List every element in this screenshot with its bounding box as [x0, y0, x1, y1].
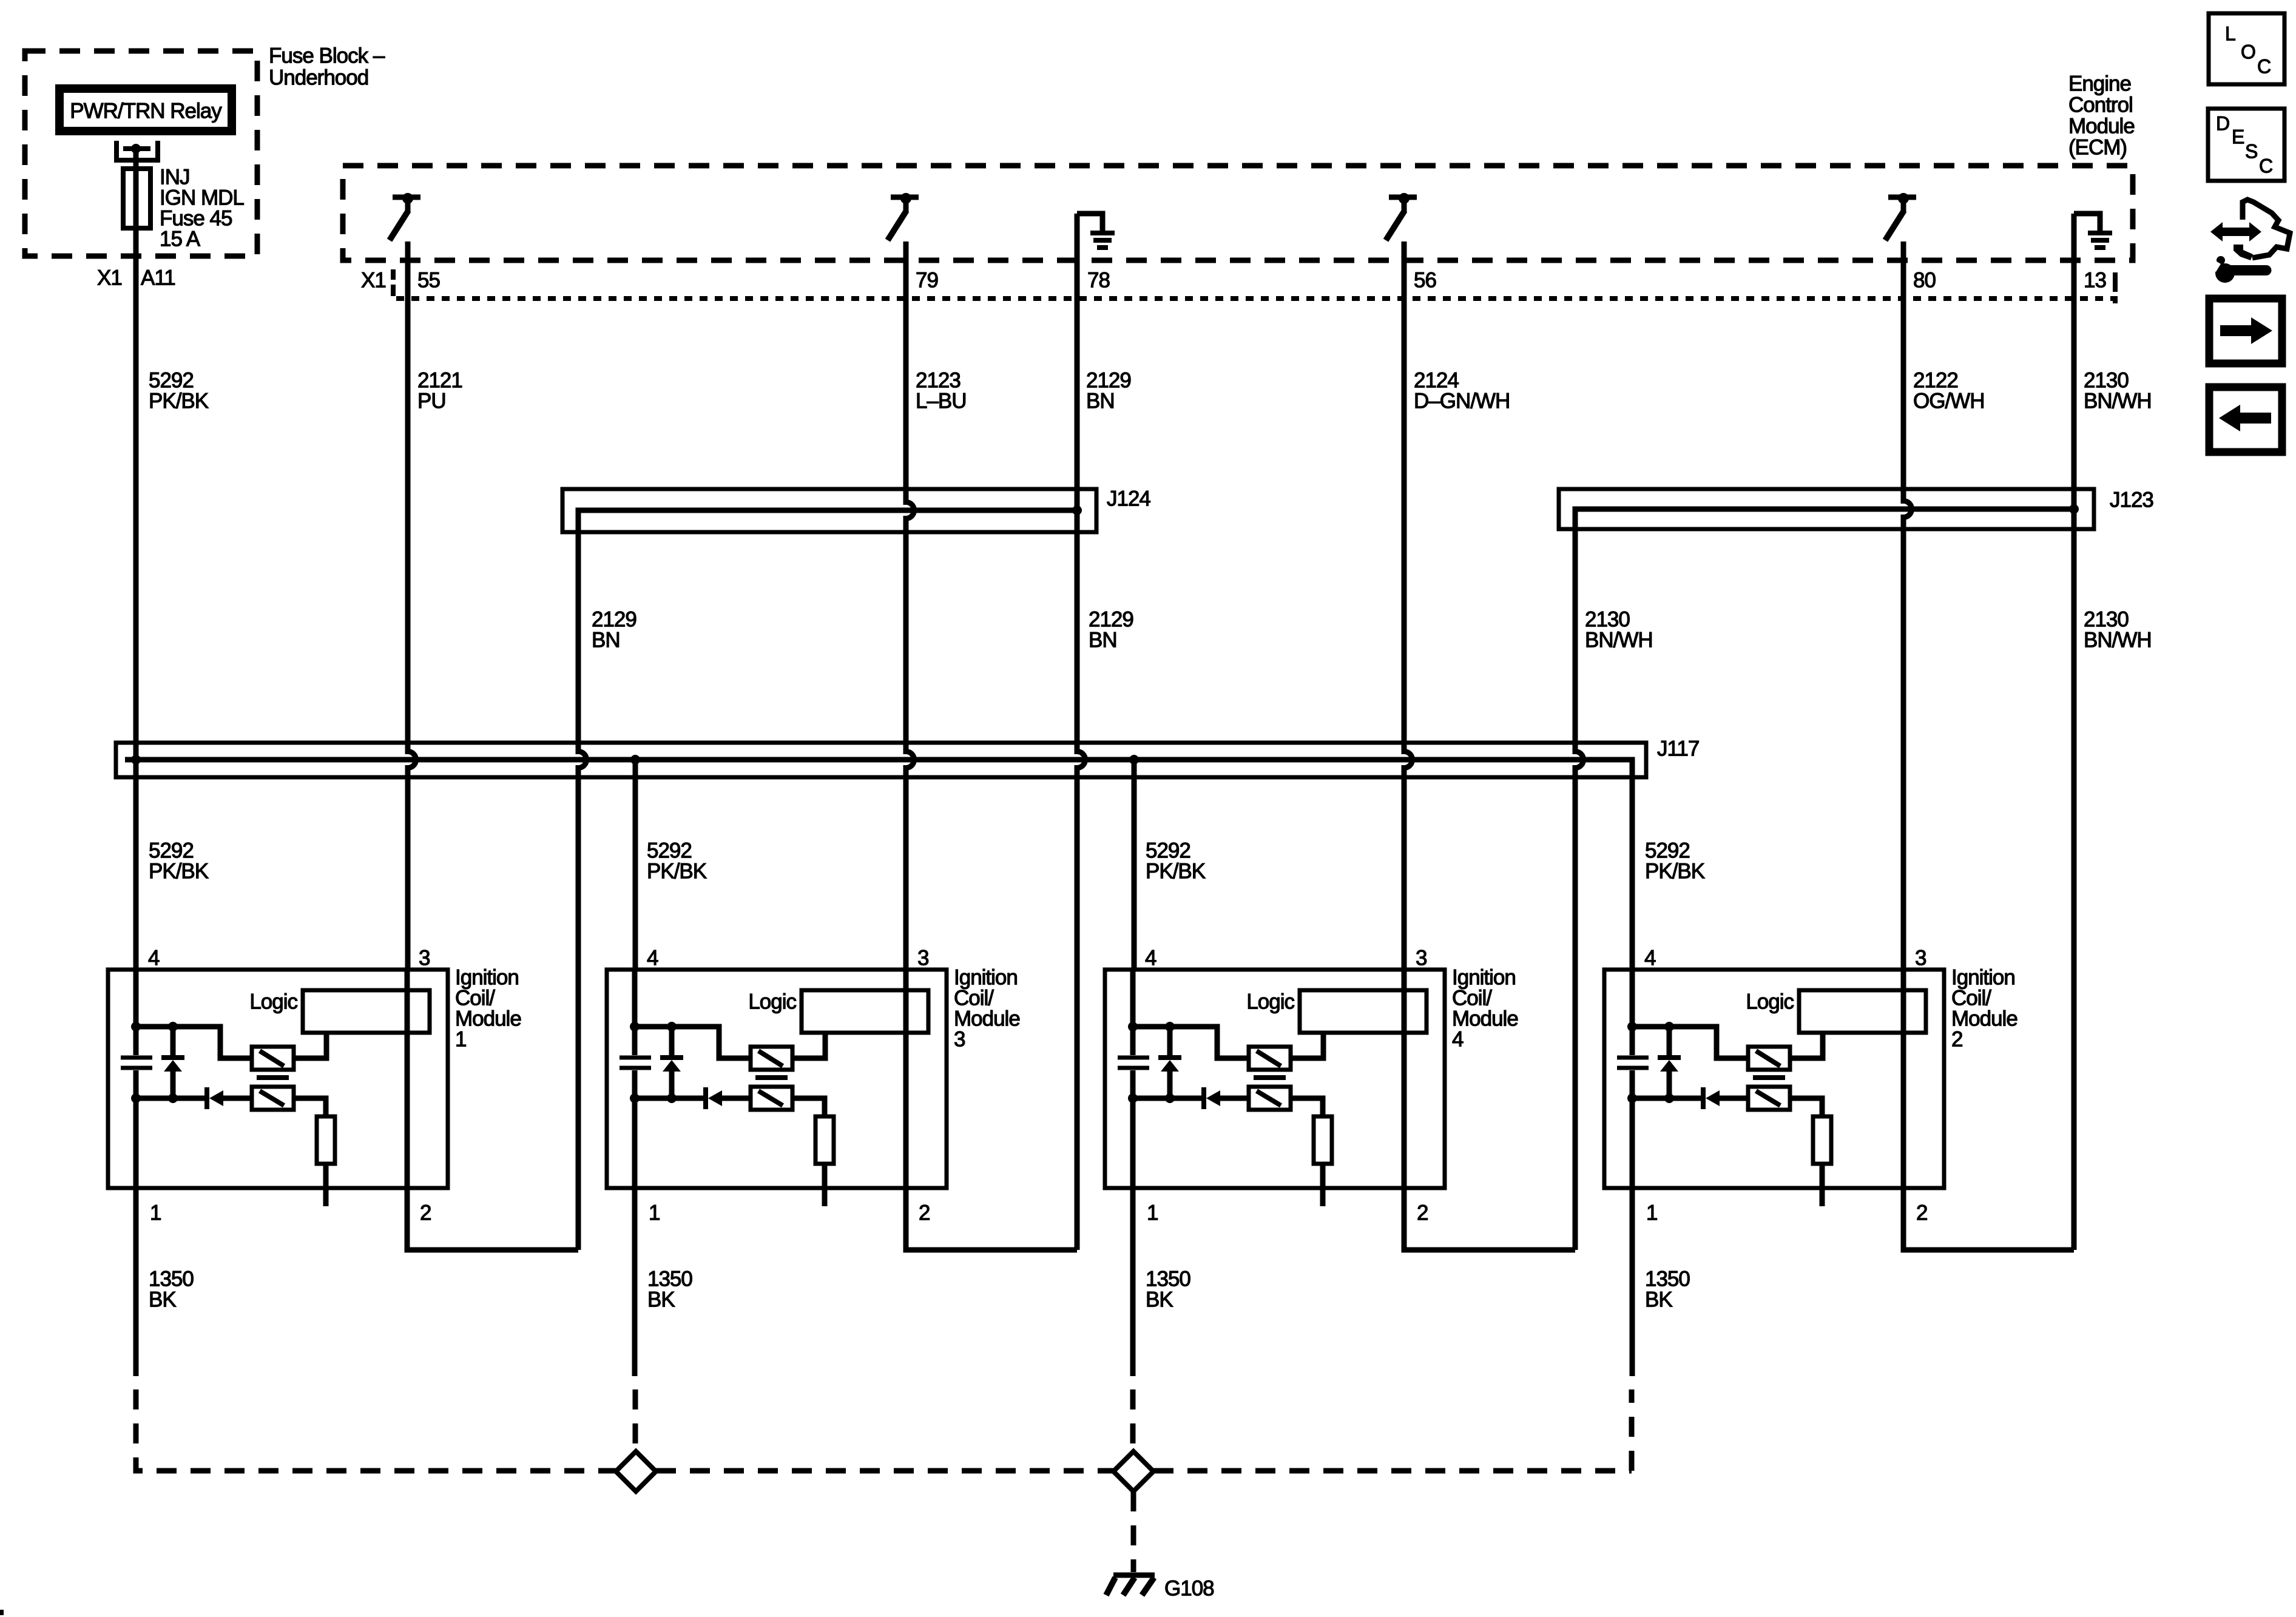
svg-text:1: 1: [455, 1028, 466, 1052]
ground ECM pin 78: [1077, 214, 1102, 233]
svg-text:2: 2: [1417, 1201, 1428, 1225]
svg-text:79: 79: [916, 269, 938, 292]
module 3 logic block: [802, 990, 928, 1033]
module 4 logic block: [1300, 990, 1427, 1033]
switch driver ECM pin 80: [1888, 195, 1916, 200]
svg-text:4: 4: [1452, 1028, 1464, 1052]
dashed wire to ground G108: [1131, 1491, 1136, 1572]
icon DESC box: [2208, 109, 2284, 181]
module 2 left supply wire pin 4 to pin 1: [1630, 970, 1635, 1188]
svg-text:4: 4: [1145, 947, 1156, 970]
module 1 primary winding: [252, 1047, 294, 1070]
module 1 diode row: [136, 1096, 252, 1101]
icon back arrow box: [2209, 387, 2282, 452]
wire 5292 PK/BK splice J117 to module 3 pin 4 and module 3 pin 1 down: [633, 760, 638, 970]
module 3 winding to logic wire: [792, 1033, 825, 1058]
svg-text:C: C: [2257, 55, 2271, 77]
svg-text:BN: BN: [1086, 390, 1115, 413]
module 1 diode: [204, 1087, 209, 1109]
svg-text:BN: BN: [1089, 629, 1117, 652]
module 3 wire row to driver: [635, 1027, 751, 1058]
svg-text:E: E: [2232, 126, 2244, 147]
module 1 left supply wire pin 4 to pin 1: [133, 970, 139, 1188]
svg-text:4: 4: [1644, 947, 1656, 970]
svg-text:13: 13: [2084, 269, 2106, 292]
ignition coil module 4 box: [1105, 970, 1445, 1188]
module 2 capacitor: [1617, 1058, 1649, 1068]
svg-text:Logic: Logic: [1746, 990, 1794, 1014]
svg-text:PK/BK: PK/BK: [1645, 860, 1705, 883]
svg-text:BK: BK: [1645, 1288, 1672, 1312]
module 2 secondary winding: [1748, 1087, 1790, 1110]
icon forward arrow box: [2209, 299, 2282, 363]
svg-text:3: 3: [917, 947, 928, 970]
module 3 spark output stub: [822, 1164, 828, 1206]
svg-text:Logic: Logic: [1246, 990, 1294, 1014]
junction dot relay output: [131, 144, 141, 154]
svg-text:X1: X1: [361, 269, 386, 292]
svg-text:OG/WH: OG/WH: [1913, 390, 1984, 413]
module 1 resistor: [317, 1116, 335, 1164]
module 2 core bar: [1753, 1075, 1785, 1080]
module 4 resistor: [1314, 1116, 1332, 1164]
junction dot J117 fuse feed: [131, 755, 141, 765]
svg-text:3: 3: [419, 947, 430, 970]
module 4 core bar: [1254, 1075, 1286, 1080]
module 3 diode: [703, 1087, 708, 1109]
module 4 junction dots: [1128, 1022, 1138, 1031]
junction dot J123 wire 2130: [2069, 504, 2079, 514]
module 1 spark output stub: [323, 1164, 329, 1206]
svg-text:J123: J123: [2110, 488, 2153, 512]
module 3 junction dots: [630, 1022, 640, 1031]
svg-text:D–GN/WH: D–GN/WH: [1414, 390, 1510, 413]
svg-text:G108: G108: [1164, 1577, 1214, 1601]
module 2 primary winding: [1748, 1047, 1790, 1070]
module 4 secondary to resistor wire: [1291, 1098, 1323, 1116]
svg-text:BN/WH: BN/WH: [1585, 629, 1653, 652]
module 3 core bar: [755, 1075, 788, 1080]
svg-text:3: 3: [1416, 947, 1427, 970]
module 2 spark output stub: [1820, 1164, 1825, 1206]
wire 2130 BN/WH ECM pin 13 to splice J123 and module 2 low reference: [2071, 214, 2077, 1250]
module 1 low reference loop wire: [407, 1188, 578, 1250]
module 4 primary winding: [1249, 1047, 1291, 1070]
module 2 junction dots: [1627, 1022, 1637, 1031]
svg-text:PK/BK: PK/BK: [647, 860, 707, 883]
switch driver ECM pin 55: [393, 195, 420, 200]
fuse F45 INJ IGN MDL Fuse 45 15 A: [123, 169, 150, 228]
connector separator left: [391, 269, 396, 296]
module 1 core bar: [257, 1075, 289, 1080]
module 2 winding to logic wire: [1790, 1033, 1823, 1058]
svg-text:80: 80: [1913, 269, 1936, 292]
module 3 diode row: [635, 1096, 751, 1101]
svg-text:2: 2: [919, 1201, 930, 1225]
module 2 diode row: [1632, 1096, 1748, 1101]
svg-text:Fuse Block –: Fuse Block –: [269, 44, 385, 68]
module 2 control wire pin 3 to pin 2: [1901, 970, 1906, 1188]
module 3 left supply wire pin 4 to pin 1: [632, 970, 638, 1188]
svg-text:2: 2: [420, 1201, 431, 1225]
module 3 secondary winding: [751, 1087, 792, 1110]
wire 5292 PK/BK splice J117 to module 4 pin 4: [1132, 760, 1137, 970]
svg-text:BN/WH: BN/WH: [2084, 390, 2152, 413]
svg-text:PK/BK: PK/BK: [149, 390, 209, 413]
ECM Engine Control Module dashed box: [343, 166, 2133, 260]
module 4 left supply wire pin 4 to pin 1: [1130, 970, 1136, 1188]
svg-text:D: D: [2216, 112, 2230, 134]
module 1 secondary winding: [252, 1087, 294, 1110]
svg-text:PK/BK: PK/BK: [1146, 860, 1206, 883]
svg-text:J117: J117: [1657, 737, 1699, 761]
svg-text:PU: PU: [417, 390, 446, 413]
module 1 control wire pin 3 to pin 2: [405, 970, 410, 1188]
module 4 low reference loop wire: [1404, 1188, 1575, 1250]
ECM connector dotted line X1: [396, 296, 2116, 301]
svg-text:X1: X1: [97, 266, 122, 290]
module 3 capacitor: [620, 1058, 651, 1068]
module 4 diode row: [1133, 1096, 1249, 1101]
module 4 capacitor: [1118, 1058, 1149, 1068]
switch driver ECM pin 79: [891, 195, 919, 200]
svg-text:4: 4: [647, 947, 658, 970]
svg-text:O: O: [2241, 41, 2256, 62]
splice J124 bus bar: [562, 489, 1096, 532]
relay output connector bracket: [116, 141, 158, 160]
module 4 wire row to driver: [1133, 1027, 1249, 1058]
svg-text:BK: BK: [647, 1288, 675, 1312]
svg-text:C: C: [2259, 155, 2273, 177]
fuse block underhood dashed box: [25, 51, 257, 256]
module 4 secondary winding: [1249, 1087, 1291, 1110]
module 3 zener diode clamp: [669, 1027, 675, 1098]
svg-text:BN: BN: [592, 629, 620, 652]
svg-text:1: 1: [1147, 1201, 1158, 1225]
svg-text:3: 3: [954, 1028, 965, 1052]
splice J117 internal wire to module 2 pin 4: [125, 760, 1632, 971]
module 3 primary winding: [751, 1047, 792, 1070]
wire 2122 OG/WH ECM pin 80 to module 2 pin 3: [1903, 241, 1912, 971]
module 2 resistor: [1813, 1116, 1831, 1164]
module 4 winding to logic wire: [1291, 1033, 1323, 1058]
ground ECM pin 13: [2074, 214, 2100, 233]
svg-text:2: 2: [1916, 1201, 1927, 1225]
svg-text:1: 1: [649, 1201, 660, 1225]
relay PWR/TRN Relay: [59, 89, 232, 131]
switch driver ECM pin 56: [1389, 195, 1417, 200]
svg-text:Engine: Engine: [2068, 72, 2131, 96]
wire 2124 D-GN/WH ECM pin 56 to module 4 pin 3: [1404, 241, 1413, 970]
svg-text:L–BU: L–BU: [916, 390, 967, 413]
module 3 resistor: [815, 1116, 834, 1164]
svg-text:BK: BK: [1146, 1288, 1173, 1312]
icon diagnostic arrows and wrench: [2210, 222, 2261, 241]
wire 5292 PK/BK from relay through fuse to module 1 pin 4: [133, 149, 139, 970]
svg-text:L: L: [2225, 22, 2236, 44]
svg-text:Underhood: Underhood: [269, 66, 368, 90]
junction dot J117 module 3 feed: [630, 755, 640, 765]
svg-text:2: 2: [1951, 1028, 1962, 1052]
module 2 wire row to driver: [1632, 1027, 1748, 1058]
svg-text:1: 1: [1646, 1201, 1657, 1225]
splice diamond right: [1113, 1451, 1153, 1491]
wire 2129 BN ECM pin 78 to splice J124 and module 3 low reference: [1077, 214, 1085, 1250]
svg-text:BN/WH: BN/WH: [2084, 629, 2152, 652]
svg-text:56: 56: [1414, 269, 1436, 292]
module 1 junction dots: [131, 1022, 141, 1031]
svg-text:1: 1: [150, 1201, 161, 1225]
module 2 diode: [1701, 1087, 1706, 1109]
module 4 diode: [1201, 1087, 1206, 1109]
svg-text:Control: Control: [2068, 93, 2133, 117]
module 1 zener diode clamp: [171, 1027, 176, 1098]
svg-text:(ECM): (ECM): [2068, 136, 2127, 160]
module 3 secondary to resistor wire: [792, 1098, 825, 1116]
dashed ground distribution wire 1350 BK: [136, 1389, 616, 1471]
ignition coil module 1 box: [108, 970, 448, 1188]
svg-text:J124: J124: [1107, 487, 1150, 511]
svg-text:15 A: 15 A: [160, 228, 201, 251]
module 1 capacitor: [121, 1058, 152, 1068]
icon LOC box: [2209, 13, 2284, 84]
svg-text:55: 55: [417, 269, 440, 292]
module 3 ground wire 1350 BK solid part: [632, 1188, 638, 1376]
module 4 ground wire 1350 BK solid part: [1130, 1188, 1136, 1376]
splice J123 bus bar: [1559, 489, 2094, 529]
wire 2123 L-BU ECM pin 79 to module 3 pin 3: [906, 241, 914, 970]
ignition coil module 2 box: [1604, 970, 1944, 1188]
svg-text:Logic: Logic: [748, 990, 796, 1014]
svg-text:4: 4: [148, 947, 160, 970]
wire 2130 BN/WH splice J123 to module 4 low reference: [1575, 509, 2074, 1250]
module 1 winding to logic wire: [294, 1033, 326, 1058]
ignition coil module 3 box: [607, 970, 947, 1188]
svg-text:PK/BK: PK/BK: [149, 860, 209, 883]
module 2 zener diode clamp: [1667, 1027, 1672, 1098]
svg-text:A11: A11: [141, 266, 175, 290]
module 2 low reference loop wire: [1903, 1188, 2074, 1250]
module 1 secondary to resistor wire: [294, 1098, 326, 1116]
svg-text:BK: BK: [149, 1288, 176, 1312]
svg-text:Logic: Logic: [249, 990, 297, 1014]
junction dot J124 wire 2129: [1072, 505, 1082, 515]
svg-text:3: 3: [1915, 947, 1926, 970]
module 4 spark output stub: [1320, 1164, 1326, 1206]
module 4 control wire pin 3 to pin 2: [1402, 970, 1407, 1188]
module 2 logic block: [1799, 990, 1926, 1033]
splice J117 bus bar: [116, 743, 1646, 777]
module 2 ground wire 1350 BK solid part: [1630, 1188, 1635, 1376]
module 3 control wire pin 3 to pin 2: [903, 970, 909, 1188]
module 3 low reference loop wire: [906, 1188, 1077, 1250]
svg-text:Module: Module: [2068, 115, 2135, 138]
svg-text:78: 78: [1087, 269, 1110, 292]
module 1 logic block: [303, 990, 430, 1033]
module 2 secondary to resistor wire: [1790, 1098, 1822, 1116]
wire 2129 BN splice J124 to module 1 low reference: [578, 510, 1077, 1250]
connector separator right: [2113, 272, 2118, 303]
module 1 wire row to driver: [136, 1027, 252, 1058]
module 1 ground wire 1350 BK solid part: [133, 1188, 139, 1376]
splice diamond left: [616, 1451, 656, 1491]
svg-text:S: S: [2245, 140, 2258, 162]
svg-text:PWR/TRN Relay: PWR/TRN Relay: [70, 100, 222, 123]
module 4 zener diode clamp: [1167, 1027, 1173, 1098]
junction dot J117 module 4 feed: [1129, 755, 1139, 765]
page corner printing artifact dot: [0, 1610, 4, 1615]
wire 2121 PU ECM pin 55 to module 1 pin 3: [408, 241, 416, 970]
ground G108: [1113, 1573, 1155, 1578]
